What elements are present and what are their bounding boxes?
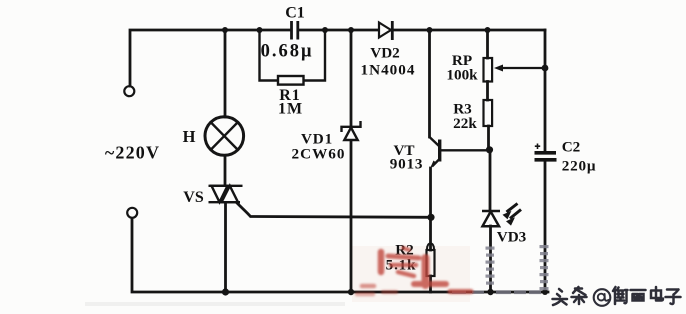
- wire R3 to base junction: [487, 126, 490, 150]
- watermark remnants (gray dashes over C2 line): [540, 245, 549, 290]
- svg-text:C2: C2: [562, 139, 581, 156]
- glyph 丽: [631, 290, 646, 301]
- wire VD3 to bottom rail: [489, 226, 492, 292]
- junction bottom rail / C2 branch: [542, 289, 548, 295]
- glyph @: [594, 289, 611, 306]
- junction top rail / collector branch: [427, 27, 433, 33]
- svg-text:22k: 22k: [453, 115, 477, 132]
- wire right vertical lower (C2 to bottom rail): [544, 162, 547, 292]
- wire lamp to triac: [224, 156, 227, 186]
- wire bottom rail: [132, 219, 548, 293]
- junction VT emitter / triac gate / R2: [427, 214, 434, 221]
- terminal lower (~220V input): [127, 208, 137, 218]
- wire R2 to bottom rail: [429, 276, 432, 292]
- watermark text 头条@衡丽电子 (hand-drawn glyphs): [553, 287, 681, 306]
- wire right vertical upper (to C2): [544, 30, 547, 150]
- svg-text:1N4004: 1N4004: [361, 62, 416, 79]
- lamp H: [205, 117, 244, 156]
- diode VD2: [379, 21, 392, 40]
- svg-text:VS: VS: [183, 189, 204, 206]
- junction bottom rail / VD1 branch: [348, 289, 354, 295]
- watermark remnants (gray dashes on bottom rail): [452, 290, 541, 294]
- zener diode VD1: [342, 121, 361, 140]
- glyph 电: [651, 287, 663, 301]
- junction top rail / C1-R1 left: [257, 27, 263, 33]
- svg-text:VD3: VD3: [497, 229, 527, 246]
- watermark remnants (gray dashes over VD3 line): [486, 247, 495, 285]
- junction right vertical / RP wiper: [542, 65, 549, 72]
- photodiode VD3: [482, 211, 500, 226]
- capacitor C2 (electrolytic): [535, 144, 557, 160]
- resistor R3 (22k): [484, 100, 493, 126]
- wire top rail left segment: [130, 30, 290, 86]
- svg-text:VD2: VD2: [370, 45, 400, 62]
- wire RP to R3: [486, 82, 489, 101]
- glyph 子: [666, 290, 681, 305]
- junction top rail / RP branch: [485, 27, 491, 33]
- wire VD1 branch: [350, 30, 353, 292]
- glyph 条: [572, 287, 587, 304]
- svg-text:220μ: 220μ: [562, 158, 597, 175]
- svg-text:0.68μ: 0.68μ: [261, 42, 314, 62]
- RP wiper arrow: [494, 65, 545, 72]
- junction R3 / VD3 / VT base: [486, 146, 493, 153]
- junction top rail / lamp branch: [222, 27, 228, 33]
- svg-text:100k: 100k: [446, 67, 478, 84]
- svg-text:~220V: ~220V: [105, 143, 160, 163]
- wire base junction to VD3: [489, 150, 492, 212]
- wire collector branch: [428, 30, 431, 137]
- junction top rail / VD1 branch: [348, 27, 354, 33]
- VD3 light arrows: [507, 204, 522, 219]
- terminal upper (~220V input): [124, 86, 134, 96]
- capacitor C1: [292, 21, 298, 40]
- wire triac to bottom rail: [224, 203, 227, 292]
- svg-text:H: H: [183, 127, 196, 146]
- junction bottom rail / triac branch: [222, 288, 229, 295]
- red watermark strokes: [357, 248, 471, 294]
- svg-text:C1: C1: [285, 5, 305, 22]
- wire top rail right segment: [393, 29, 545, 32]
- resistor R2 (5.1k): [427, 243, 434, 249]
- wire triac gate to transistor emitter: [237, 203, 431, 217]
- potentiometer RP: [484, 58, 493, 82]
- wire top rail middle segment: [299, 29, 378, 32]
- glyph 头: [553, 289, 568, 305]
- svg-text:1M: 1M: [278, 101, 303, 118]
- junction top rail / C1-R1 right: [322, 27, 328, 33]
- wire RP branch top: [486, 30, 489, 58]
- wire lamp branch upper: [224, 30, 227, 117]
- wire emitter to gate junction: [429, 168, 432, 217]
- junction bottom rail / VD3 branch: [487, 289, 493, 295]
- svg-text:9013: 9013: [390, 156, 424, 173]
- triac VS: [209, 186, 243, 202]
- glyph 衡: [613, 287, 628, 304]
- svg-text:2CW60: 2CW60: [292, 146, 346, 163]
- resistor R1 (parallel loop): [260, 30, 326, 85]
- transistor VT (9013): [430, 137, 489, 167]
- wire emitter junction to R2: [429, 217, 432, 250]
